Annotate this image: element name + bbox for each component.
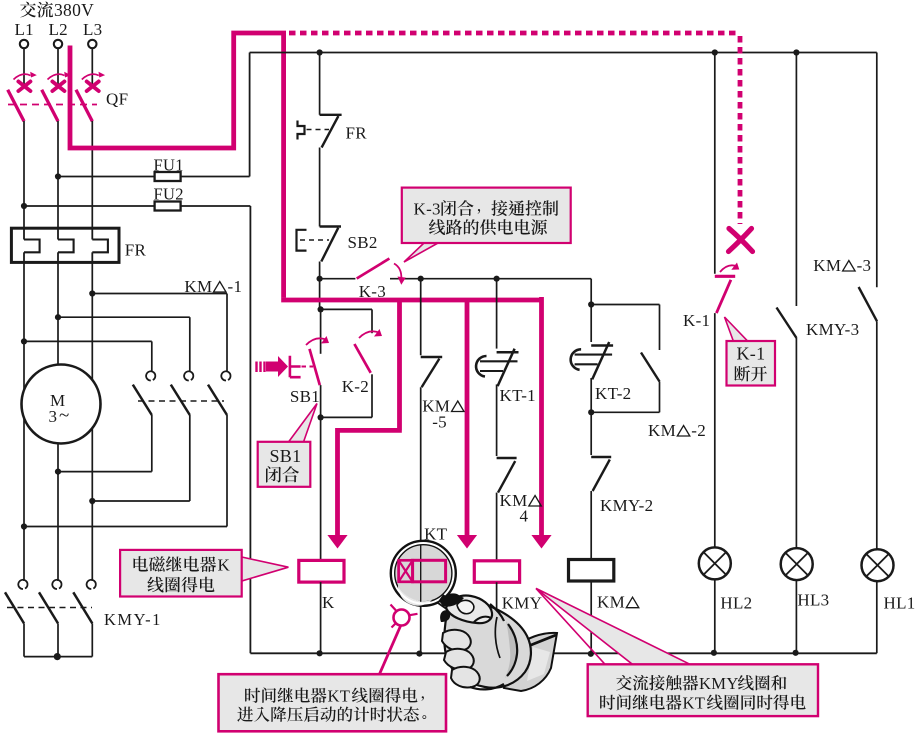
contactor aux contact KM delta-2 (NO)	[641, 353, 706, 441]
fuse FU1	[154, 156, 184, 182]
svg-text:FU2: FU2	[154, 185, 184, 204]
wire KM delta-4 to KMY coil	[496, 493, 498, 561]
svg-text:-3: -3	[857, 256, 872, 275]
wire tap L2 to KM delta-1 pole 2	[58, 316, 190, 318]
svg-text:K-2: K-2	[342, 377, 369, 396]
node KM delta-5 branch	[418, 276, 424, 282]
svg-text:KMY: KMY	[699, 674, 739, 693]
svg-text:K-1: K-1	[737, 344, 766, 364]
wire KM delta-3 to lamp HL1	[876, 321, 878, 549]
node KM delta-2 parallel bottom	[588, 409, 594, 415]
wire pole2 to L3	[92, 500, 190, 502]
wire L2 below QF to FR	[57, 121, 59, 229]
wire KT-2 lower	[590, 378, 592, 412]
node K-3 left	[317, 276, 323, 282]
wire L2 terminal to QF	[57, 49, 59, 89]
svg-text:SB2: SB2	[348, 233, 378, 252]
contactor contacts KM delta-1	[133, 277, 242, 415]
node join pole2 to L3	[89, 498, 95, 504]
energized drop to KMY coil with arrow	[531, 297, 551, 549]
wire K-3 rail to KM delta-5	[420, 279, 422, 356]
wire bottom control rail	[250, 652, 876, 654]
pressing arrow at SB1	[257, 356, 289, 377]
svg-text:L1: L1	[15, 20, 34, 39]
wire L1 to KMY-1	[23, 527, 25, 582]
wire tap L3 to KM delta-1 pole 3	[92, 293, 227, 295]
wire HL1 to bottom rail	[876, 581, 878, 653]
coil K	[299, 560, 344, 612]
svg-text:KMY-3: KMY-3	[806, 320, 859, 339]
coil KMY	[474, 561, 542, 613]
energized path highlight from L2	[70, 33, 284, 298]
wire K coil to bottom rail	[320, 582, 322, 653]
node L2	[49, 20, 68, 48]
wire KMY coil to bottom rail	[496, 582, 498, 653]
wire FU2	[24, 205, 250, 207]
lamp HL2	[699, 547, 753, 612]
energized drop to K coil with arrow	[327, 302, 401, 549]
coil KM delta	[569, 560, 639, 612]
energized control rail highlight	[281, 298, 541, 303]
wire KM delta-5 to KT coil	[420, 387, 422, 653]
wire L1 terminal to QF	[23, 49, 25, 89]
lamp HL3	[781, 548, 830, 609]
node HL3 bottom	[793, 650, 799, 656]
contactor aux contact KM delta-3 (NO)	[813, 256, 877, 321]
thermal relay contact FR (NC)	[298, 115, 368, 148]
svg-text:3: 3	[49, 407, 58, 426]
wire KMY-2 to KM delta coil	[590, 491, 592, 560]
stop button SB2 (NC)	[297, 227, 378, 262]
wire KT-1 to KM delta-4	[496, 384, 498, 456]
wire KMY-3 to lamp HL3	[795, 338, 797, 548]
wire L2 FR to motor	[57, 262, 59, 475]
relay contact K-1 (opening)	[683, 263, 739, 331]
wire FU1	[58, 176, 250, 178]
svg-text:K: K	[218, 556, 231, 575]
wire KM delta-2 parallel top	[591, 304, 659, 306]
svg-text:L2: L2	[49, 20, 68, 39]
wire HL2 to bottom rail	[714, 579, 716, 653]
timer coil KT symbol magnified	[399, 525, 448, 582]
node KM delta-2 parallel top	[588, 301, 594, 307]
time relay contact KT-1 (delayed)	[476, 349, 536, 405]
wire K-3 rail to KT-1	[496, 279, 498, 349]
wire L1 below QF to FR	[23, 121, 25, 229]
svg-text:HL3: HL3	[797, 591, 829, 610]
star contactor contacts KMY-1	[5, 580, 162, 629]
wire top rail to KMY-3	[795, 53, 797, 307]
node K bottom	[317, 650, 323, 656]
contactor aux contact KM delta-4 (NC)	[497, 458, 542, 526]
svg-text:K-1: K-1	[683, 311, 710, 330]
node KT-1 branch	[494, 276, 500, 282]
node KT bottom	[416, 651, 422, 657]
wire K-3 rail corner to KT-2	[590, 279, 592, 342]
wire parallel bottom	[321, 416, 372, 418]
wire HL3 to bottom rail	[795, 580, 797, 653]
wire K-1 to lamp HL2	[714, 313, 716, 547]
node L1	[15, 20, 34, 48]
wire top rail to KM delta-3	[876, 53, 878, 288]
svg-text:KT: KT	[328, 687, 351, 706]
node KMY-3 branch on top rail	[793, 49, 799, 55]
svg-text:4: 4	[520, 507, 529, 526]
motor M 3-phase	[22, 365, 101, 444]
wire KM delta-1 pole3 down	[226, 415, 228, 527]
wire L3 FR to motor	[91, 262, 93, 505]
node K-1 branch on top rail	[712, 49, 718, 55]
magnifier handle	[438, 596, 454, 611]
wire L3 below QF to FR	[91, 121, 93, 229]
wire K-2 node to K coil	[320, 417, 322, 560]
lamp HL1	[862, 549, 916, 613]
star aux contact KMY-3 (NO)	[777, 308, 860, 340]
node KM delta bottom	[588, 651, 594, 657]
node FU1 tap on L2	[55, 173, 61, 179]
fuse FU2	[154, 185, 184, 211]
svg-text:K-3: K-3	[414, 200, 441, 219]
relay contact K-2 (closing)	[342, 309, 382, 417]
node U tap L3	[89, 290, 95, 296]
contactor aux contact KM delta-5 (NC)	[421, 357, 464, 432]
svg-text:KM: KM	[597, 593, 625, 612]
svg-text:QF: QF	[106, 90, 128, 109]
title AC 380V supply	[20, 0, 94, 20]
svg-text:KMY: KMY	[502, 594, 543, 613]
svg-text:HL1: HL1	[884, 594, 916, 613]
svg-text:380V: 380V	[54, 0, 94, 20]
svg-text:FR: FR	[125, 241, 147, 260]
circuit breaker QF	[8, 72, 129, 122]
wire pole1 to L2	[58, 471, 152, 473]
node KMY bottom	[494, 650, 500, 656]
thermal overload relay FR heater block	[11, 228, 146, 262]
svg-text:KT-2: KT-2	[595, 384, 631, 403]
wire L2 to KMY-1	[57, 472, 59, 581]
svg-text:HL2: HL2	[720, 594, 752, 613]
pointer line to KT callout	[380, 626, 401, 674]
svg-text:K: K	[322, 593, 335, 612]
start button SB1 (pressed closed)	[290, 309, 329, 417]
wire FR to SB2	[319, 148, 321, 227]
svg-text:-2: -2	[691, 421, 706, 440]
wire tap L1 to KM delta-1 pole 1	[24, 340, 152, 342]
svg-text:~: ~	[59, 405, 69, 426]
wire left control riser from FU2	[249, 206, 251, 653]
svg-text:SB1: SB1	[270, 446, 302, 466]
wire top rail to K-1	[714, 53, 716, 274]
time relay contact KT-2 (delayed)	[571, 342, 632, 403]
energized drop to KT coil with arrow	[457, 302, 477, 549]
star aux contact KMY-2 (NC)	[591, 412, 653, 515]
cross mark K-1 blocked	[729, 229, 753, 252]
node join pole1 to L2	[55, 469, 61, 475]
svg-text:KT: KT	[683, 694, 706, 713]
blocked path dashed to K-1	[289, 33, 740, 224]
wire L3 to KMY-1	[91, 501, 93, 581]
node join pole3 to L1	[21, 523, 27, 529]
wire KM delta coil to bottom rail	[590, 581, 592, 654]
wire KM delta-1 pole2 down	[189, 415, 191, 501]
timing marker node	[391, 605, 418, 628]
svg-text:FR: FR	[346, 124, 368, 143]
node HL2 bottom	[711, 650, 717, 656]
node FU2 tap on L1	[21, 203, 27, 209]
svg-text:KM: KM	[648, 421, 676, 440]
wire star point bus	[23, 623, 25, 656]
wire L3 terminal to QF	[91, 49, 93, 89]
hand holding magnifier	[439, 593, 557, 691]
wire top rail to FR contact	[319, 53, 321, 115]
wire L1 FR to motor	[23, 262, 25, 530]
wire KM delta-2 lower	[659, 382, 661, 413]
node W tap L1	[21, 338, 27, 344]
callout: SB1 closed	[258, 404, 317, 487]
magnifier lens over KT coil	[391, 541, 456, 606]
svg-text:SB1: SB1	[290, 387, 320, 406]
callout: relay K coil energized	[120, 550, 288, 597]
svg-text:-1: -1	[228, 277, 243, 296]
callout: KMY and KT coils energized together	[536, 588, 818, 716]
node V tap L2	[55, 314, 61, 320]
callout: K-1 opens	[725, 317, 776, 386]
node SB1 K-2 top	[318, 306, 324, 312]
svg-text:KMY-1: KMY-1	[104, 610, 162, 629]
node star point	[54, 653, 61, 660]
relay contact K-3 (closing)	[320, 259, 592, 302]
svg-text:KM: KM	[813, 256, 841, 275]
node L3	[83, 20, 102, 48]
svg-text:-5: -5	[432, 413, 447, 432]
wire parallel top	[321, 308, 372, 310]
svg-text:KT: KT	[424, 525, 448, 544]
node FR branch on top rail	[317, 49, 323, 55]
callout: timer KT coil energized	[219, 674, 447, 731]
svg-text:KMY-2: KMY-2	[600, 496, 653, 515]
node SB1 K-2 bottom	[318, 414, 324, 420]
svg-text:KT-1: KT-1	[500, 386, 536, 405]
wire KM delta-1 pole1 down	[151, 415, 153, 472]
wire pole3 to L1	[24, 526, 227, 528]
wire SB2 to K-3 node	[319, 262, 321, 310]
svg-text:L3: L3	[83, 20, 102, 39]
wire top control rail from FU1	[250, 52, 877, 54]
svg-text:FU1: FU1	[154, 156, 184, 175]
svg-text:KM: KM	[184, 277, 212, 296]
callout: K-3 closes, connects control supply	[402, 188, 571, 262]
